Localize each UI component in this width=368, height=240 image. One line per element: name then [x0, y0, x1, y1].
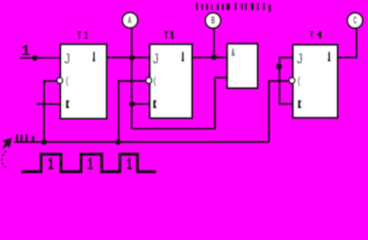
pin Q of T1: [93, 52, 95, 61]
wire Q4 to probe C: [338, 28, 357, 58]
pin C of T1: [66, 76, 70, 88]
flip-flop T4 box: [293, 45, 338, 118]
node dot T4 JK: [276, 64, 282, 70]
node dot Q1: [129, 55, 135, 61]
probe B letter: [211, 15, 215, 26]
wire C2 clock tap: [119, 81, 145, 142]
node dot clock tap 1: [41, 139, 47, 145]
clock generator ticks: [16, 135, 34, 143]
label T1 letter T: [77, 29, 81, 41]
pin Q of T4: [328, 52, 330, 61]
wire T4 JK tie: [280, 58, 294, 105]
label & of AND gate: [231, 45, 235, 58]
wire C4 clock riser: [269, 81, 288, 142]
svg-text:1: 1: [21, 43, 30, 60]
node dot input 1: [32, 55, 38, 61]
pin C of T4: [298, 76, 302, 88]
pin Q of T1 foot: [93, 59, 96, 61]
probe C circle: [347, 13, 362, 28]
svg-text:J: J: [64, 50, 70, 67]
clock bubble T2: [146, 78, 152, 84]
svg-text:1: 1: [84, 29, 88, 41]
node dot clock tap 2: [115, 139, 121, 145]
label T1 digit 1: [84, 29, 88, 41]
wire K2 from Q1 node: [132, 103, 150, 105]
svg-text:T: T: [164, 29, 168, 41]
label T2 letter T: [164, 29, 168, 41]
svg-text:J: J: [297, 50, 303, 67]
waveform clock trace: [22, 154, 157, 172]
pin Q of T4 foot: [328, 59, 331, 61]
AND gate U3 box: [227, 44, 257, 88]
svg-text:T: T: [77, 29, 81, 41]
wire Q2 to AND input 1: [192, 57, 227, 59]
svg-text:B: B: [211, 15, 215, 26]
pin C of T2: [153, 76, 157, 88]
pin K of T4: [298, 100, 301, 108]
probe A letter: [128, 15, 132, 26]
label T2 digit 2: [170, 31, 174, 39]
clock generator dashed arc: [2, 151, 8, 168]
wire probe A stem / node Q1 vertical: [131, 28, 133, 129]
svg-text:C: C: [353, 15, 357, 27]
pin Q of T2 foot: [182, 59, 185, 61]
clock bubble T4: [289, 78, 295, 84]
pin K of T2: [153, 100, 156, 108]
pin J of T2: [153, 50, 159, 67]
wire Q1 to J2: [107, 57, 150, 59]
pin J of T1: [64, 50, 70, 67]
waveform digit 1 first pulse: [48, 159, 53, 169]
probe A circle: [122, 13, 137, 28]
svg-text:T: T: [310, 29, 314, 41]
svg-text:J: J: [153, 50, 159, 67]
clock generator arrow: [2, 138, 11, 149]
wire K1 stub: [37, 103, 61, 105]
pin J of T4: [297, 50, 303, 67]
wire probe B stem: [213, 28, 215, 58]
wire J1 input: [20, 57, 60, 59]
label T4 letter T: [310, 29, 314, 41]
flip-flop T2 box: [150, 44, 192, 118]
tiny title text marks: [196, 2, 271, 13]
waveform digit 1 second pulse: [88, 159, 93, 169]
wire bracket Q1 to AND input 2: [132, 78, 227, 129]
flip-flop T1 box: [61, 44, 107, 118]
waveform digit 1 third pulse: [127, 159, 132, 169]
node dot Q2: [211, 54, 217, 60]
pin K of T1: [66, 100, 69, 108]
clock bubble T1: [57, 78, 63, 84]
probe B circle: [205, 13, 220, 28]
label T4 digit 4: [318, 31, 322, 39]
pin Q of T2: [182, 52, 184, 61]
probe C letter: [353, 15, 357, 27]
svg-text:&: &: [231, 45, 235, 58]
node dot K2 tap: [129, 101, 135, 107]
wire clock line: [14, 141, 269, 143]
svg-text:A: A: [128, 15, 132, 26]
wire C1 clock tap: [44, 81, 56, 142]
